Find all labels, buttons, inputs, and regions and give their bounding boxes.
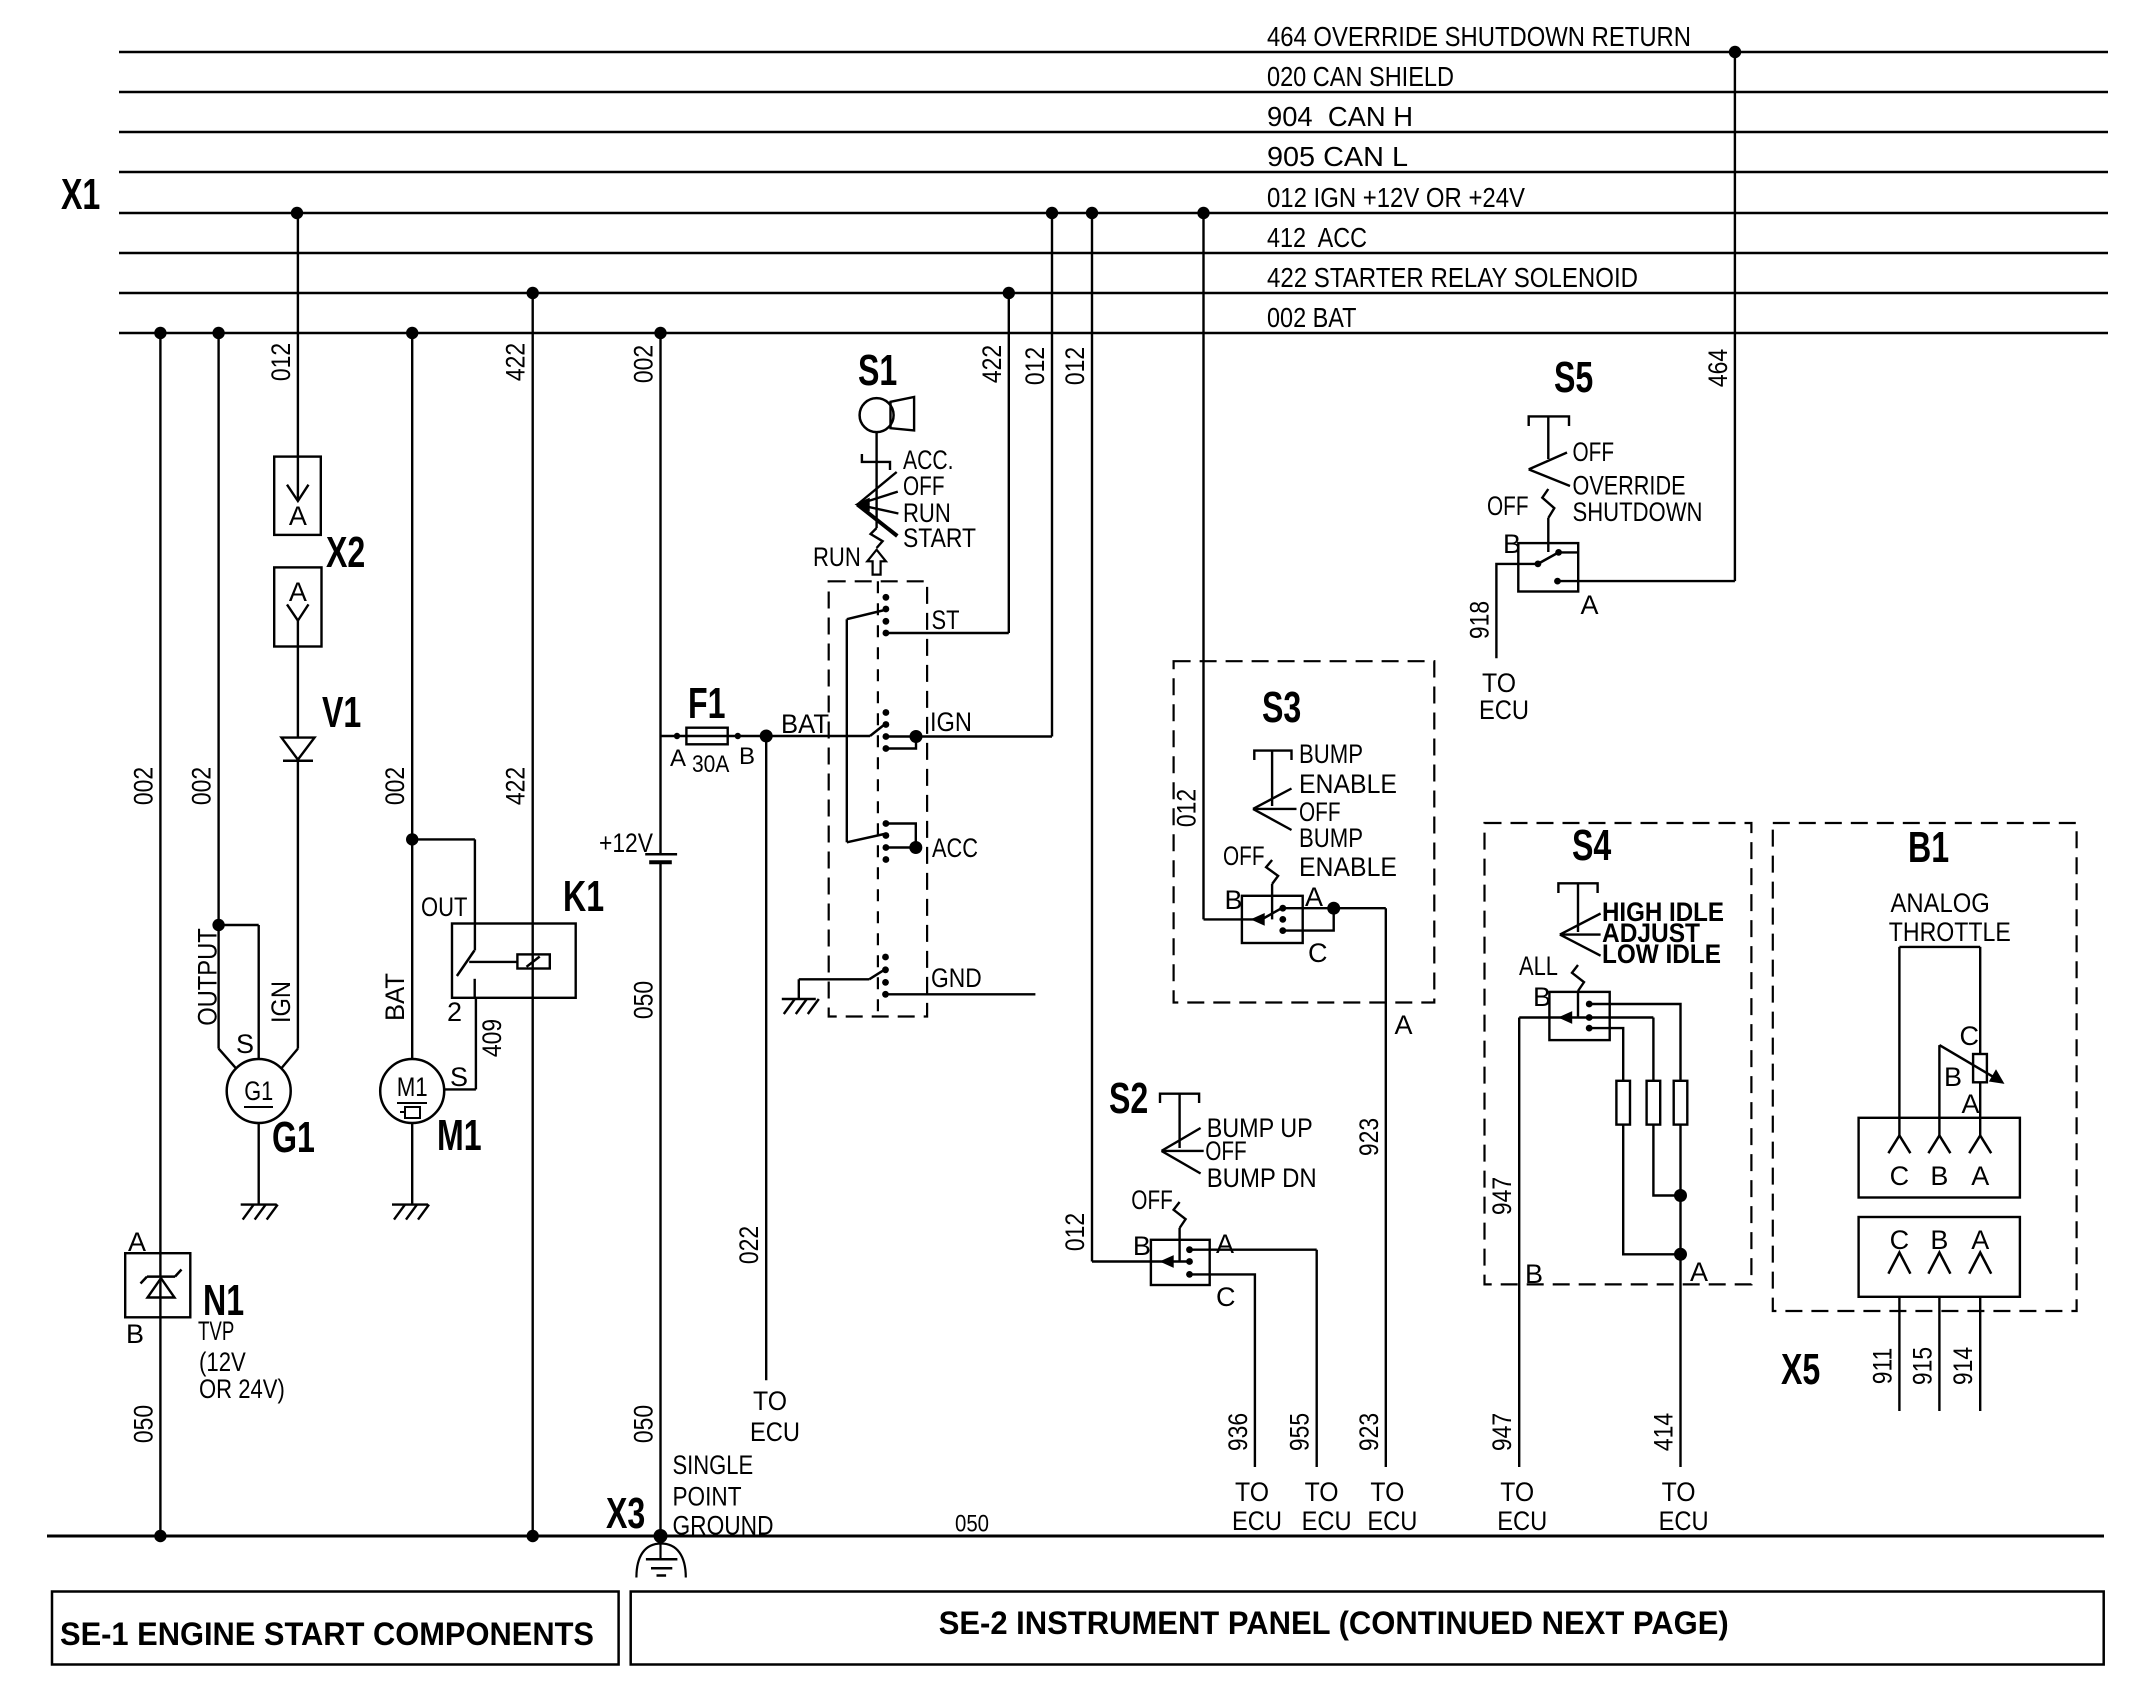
svg-text:V1: V1 bbox=[322, 688, 361, 737]
svg-text:050: 050 bbox=[955, 1511, 989, 1538]
svg-text:SE-2 INSTRUMENT PANEL (CONTINU: SE-2 INSTRUMENT PANEL (CONTINUED NEXT PA… bbox=[939, 1605, 1729, 1641]
svg-text:THROTTLE: THROTTLE bbox=[1889, 917, 2011, 947]
svg-text:464 OVERRIDE SHUTDOWN RETURN: 464 OVERRIDE SHUTDOWN RETURN bbox=[1267, 21, 1691, 52]
svg-text:012 IGN +12V OR +24V: 012 IGN +12V OR +24V bbox=[1267, 182, 1525, 213]
svg-text:923: 923 bbox=[1354, 1118, 1384, 1156]
svg-text:POINT: POINT bbox=[673, 1482, 742, 1512]
svg-text:B: B bbox=[1944, 1062, 1962, 1092]
svg-text:B: B bbox=[1503, 529, 1521, 559]
svg-text:C: C bbox=[1308, 938, 1328, 968]
svg-text:A: A bbox=[1581, 590, 1599, 620]
svg-text:012: 012 bbox=[266, 343, 296, 381]
svg-text:(12V: (12V bbox=[199, 1347, 246, 1377]
svg-text:B: B bbox=[739, 743, 755, 770]
svg-text:422 STARTER RELAY SOLENOID: 422 STARTER RELAY SOLENOID bbox=[1267, 262, 1638, 293]
svg-text:S4: S4 bbox=[1572, 821, 1612, 870]
svg-text:012: 012 bbox=[1172, 789, 1202, 827]
svg-text:B: B bbox=[126, 1319, 144, 1349]
svg-text:ECU: ECU bbox=[1232, 1506, 1282, 1536]
svg-text:BUMP DN: BUMP DN bbox=[1207, 1163, 1317, 1193]
svg-text:START: START bbox=[903, 523, 976, 553]
svg-text:002: 002 bbox=[380, 767, 410, 805]
svg-text:S5: S5 bbox=[1554, 353, 1593, 402]
svg-text:A: A bbox=[1690, 1257, 1708, 1287]
svg-text:LOW IDLE: LOW IDLE bbox=[1602, 939, 1721, 969]
svg-text:911: 911 bbox=[1867, 1348, 1897, 1385]
svg-text:ALL: ALL bbox=[1519, 951, 1558, 981]
svg-text:B: B bbox=[1525, 1259, 1543, 1289]
svg-text:IGN: IGN bbox=[266, 981, 296, 1023]
svg-text:905 CAN L: 905 CAN L bbox=[1267, 141, 1408, 172]
svg-text:C: C bbox=[1216, 1282, 1236, 1312]
svg-text:TO: TO bbox=[1482, 668, 1516, 698]
svg-text:GROUND: GROUND bbox=[673, 1511, 774, 1541]
svg-text:012: 012 bbox=[1060, 1213, 1090, 1251]
svg-text:022: 022 bbox=[734, 1226, 764, 1264]
svg-text:OVERRIDE: OVERRIDE bbox=[1573, 471, 1686, 501]
svg-text:ECU: ECU bbox=[1659, 1506, 1709, 1536]
svg-text:012: 012 bbox=[1020, 347, 1050, 385]
svg-text:915: 915 bbox=[1907, 1347, 1937, 1385]
svg-text:G1: G1 bbox=[272, 1113, 315, 1162]
svg-text:SE-1 ENGINE START COMPONENTS: SE-1 ENGINE START COMPONENTS bbox=[60, 1616, 594, 1652]
svg-text:BAT: BAT bbox=[380, 973, 410, 1021]
svg-text:TO: TO bbox=[1370, 1477, 1404, 1507]
svg-text:G1: G1 bbox=[244, 1076, 273, 1106]
svg-text:ENABLE: ENABLE bbox=[1299, 852, 1397, 882]
svg-text:TO: TO bbox=[1500, 1477, 1534, 1507]
svg-text:904 CAN H: 904 CAN H bbox=[1267, 101, 1413, 132]
svg-text:S3: S3 bbox=[1262, 683, 1301, 732]
svg-text:TVP: TVP bbox=[198, 1316, 234, 1346]
svg-text:SHUTDOWN: SHUTDOWN bbox=[1573, 497, 1703, 527]
svg-text:A: A bbox=[289, 577, 307, 607]
svg-text:ECU: ECU bbox=[1479, 695, 1529, 725]
svg-text:914: 914 bbox=[1948, 1347, 1978, 1385]
svg-text:TO: TO bbox=[1305, 1477, 1339, 1507]
svg-text:A: A bbox=[289, 501, 307, 531]
svg-text:IGN: IGN bbox=[930, 707, 972, 737]
svg-text:A: A bbox=[670, 745, 686, 772]
svg-text:947: 947 bbox=[1487, 1177, 1517, 1215]
svg-text:2: 2 bbox=[447, 997, 462, 1027]
svg-text:947: 947 bbox=[1487, 1413, 1517, 1451]
svg-text:A: A bbox=[1962, 1089, 1980, 1119]
svg-text:30A: 30A bbox=[692, 751, 729, 778]
svg-text:OFF: OFF bbox=[903, 471, 945, 501]
svg-text:ST: ST bbox=[932, 605, 960, 635]
svg-text:050: 050 bbox=[128, 1405, 158, 1443]
svg-text:002: 002 bbox=[128, 767, 158, 805]
svg-text:S2: S2 bbox=[1109, 1074, 1148, 1123]
svg-text:ECU: ECU bbox=[750, 1417, 800, 1447]
svg-text:OUT: OUT bbox=[421, 892, 467, 922]
svg-text:918: 918 bbox=[1464, 601, 1494, 639]
svg-text:OFF: OFF bbox=[1573, 437, 1615, 467]
svg-text:B: B bbox=[1133, 1231, 1151, 1261]
svg-text:TO: TO bbox=[753, 1386, 787, 1416]
svg-text:+12V: +12V bbox=[599, 828, 653, 858]
svg-text:002: 002 bbox=[187, 767, 217, 805]
svg-text:050: 050 bbox=[629, 1405, 659, 1443]
svg-text:S: S bbox=[236, 1029, 254, 1059]
svg-text:OUTPUT: OUTPUT bbox=[193, 928, 223, 1026]
svg-text:OR 24V): OR 24V) bbox=[199, 1374, 285, 1404]
svg-text:TO: TO bbox=[1662, 1477, 1696, 1507]
svg-text:A: A bbox=[1216, 1229, 1234, 1259]
svg-text:955: 955 bbox=[1285, 1413, 1315, 1451]
svg-text:X1: X1 bbox=[61, 170, 100, 219]
svg-text:012: 012 bbox=[1060, 347, 1090, 385]
svg-text:RUN: RUN bbox=[813, 542, 861, 572]
svg-text:S: S bbox=[450, 1062, 468, 1092]
svg-text:422: 422 bbox=[501, 343, 531, 381]
svg-text:M1: M1 bbox=[397, 1072, 428, 1102]
svg-text:OFF: OFF bbox=[1487, 491, 1529, 521]
svg-text:BUMP: BUMP bbox=[1299, 739, 1363, 769]
svg-text:X3: X3 bbox=[606, 1489, 645, 1538]
svg-text:923: 923 bbox=[1354, 1413, 1384, 1451]
svg-text:020 CAN SHIELD: 020 CAN SHIELD bbox=[1267, 61, 1454, 92]
svg-text:A: A bbox=[1395, 1010, 1413, 1040]
svg-text:ACC: ACC bbox=[932, 833, 978, 863]
svg-text:422: 422 bbox=[501, 767, 531, 805]
svg-text:A: A bbox=[1971, 1161, 1989, 1191]
svg-text:B: B bbox=[1533, 982, 1551, 1012]
svg-text:ECU: ECU bbox=[1302, 1506, 1352, 1536]
svg-text:409: 409 bbox=[477, 1019, 507, 1057]
svg-text:B1: B1 bbox=[1908, 823, 1949, 872]
svg-text:414: 414 bbox=[1649, 1413, 1679, 1451]
svg-text:ECU: ECU bbox=[1497, 1506, 1547, 1536]
svg-text:A: A bbox=[128, 1227, 146, 1257]
svg-text:GND: GND bbox=[931, 963, 982, 993]
svg-text:OFF: OFF bbox=[1205, 1136, 1247, 1166]
svg-text:BAT: BAT bbox=[781, 709, 829, 739]
svg-text:C: C bbox=[1960, 1021, 1980, 1051]
svg-text:050: 050 bbox=[629, 981, 659, 1019]
svg-text:936: 936 bbox=[1223, 1413, 1253, 1451]
svg-text:TO: TO bbox=[1235, 1477, 1269, 1507]
svg-text:M1: M1 bbox=[437, 1111, 482, 1160]
svg-text:K1: K1 bbox=[563, 872, 604, 921]
svg-text:X2: X2 bbox=[326, 528, 365, 577]
svg-text:OFF: OFF bbox=[1131, 1185, 1173, 1215]
svg-text:B: B bbox=[1225, 885, 1243, 915]
svg-text:002: 002 bbox=[629, 345, 659, 383]
svg-text:464: 464 bbox=[1703, 349, 1733, 387]
svg-text:X5: X5 bbox=[1781, 1345, 1820, 1394]
svg-text:A: A bbox=[1305, 882, 1323, 912]
svg-text:B: B bbox=[1930, 1161, 1948, 1191]
svg-text:SINGLE: SINGLE bbox=[673, 1450, 754, 1480]
svg-text:F1: F1 bbox=[688, 679, 726, 728]
svg-text:C: C bbox=[1890, 1161, 1910, 1191]
svg-text:002 BAT: 002 BAT bbox=[1267, 302, 1357, 333]
svg-text:ENABLE: ENABLE bbox=[1299, 769, 1397, 799]
svg-text:422: 422 bbox=[977, 345, 1007, 383]
svg-text:ECU: ECU bbox=[1367, 1506, 1417, 1536]
svg-text:S1: S1 bbox=[858, 346, 897, 395]
svg-text:OFF: OFF bbox=[1223, 841, 1265, 871]
svg-text:412 ACC: 412 ACC bbox=[1267, 222, 1367, 253]
svg-text:ANALOG: ANALOG bbox=[1891, 888, 1990, 918]
svg-text:BUMP: BUMP bbox=[1299, 823, 1363, 853]
